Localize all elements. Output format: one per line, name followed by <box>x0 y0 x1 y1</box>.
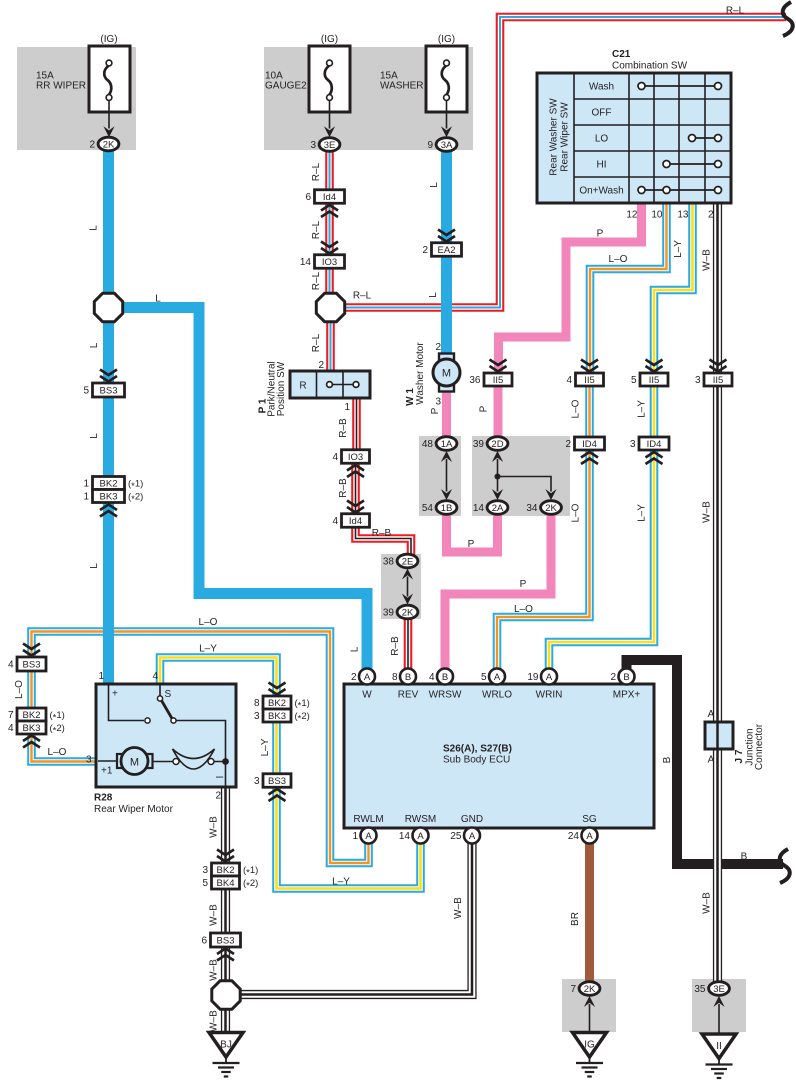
svg-text:BK2: BK2 <box>217 865 235 876</box>
svg-text:REV: REV <box>398 690 419 701</box>
svg-text:2K: 2K <box>584 984 596 995</box>
connector chevrons above 8 BK2 <box>269 683 286 695</box>
svg-text:L–Y: L–Y <box>332 877 350 888</box>
svg-text:2: 2 <box>435 342 441 353</box>
fuse block gray box left <box>17 47 136 150</box>
svg-text:GAUGE2: GAUGE2 <box>265 80 307 91</box>
svg-text:1: 1 <box>83 479 89 490</box>
off-page squiggle R-L <box>783 2 793 36</box>
rear wiper motor R28 <box>86 671 236 815</box>
svg-text:48: 48 <box>422 439 434 450</box>
connector oval 54 1B <box>422 501 457 515</box>
svg-text:2A: 2A <box>492 503 504 514</box>
arrow into 2K <box>402 594 413 605</box>
wire L-Y ECU RWSM loop to rear wiper motor pin 4 <box>160 644 421 889</box>
svg-text:WRLO: WRLO <box>482 690 512 701</box>
ECU pin 2 W <box>351 669 375 701</box>
svg-text:W–B: W–B <box>453 897 464 919</box>
svg-text:SG: SG <box>582 814 597 825</box>
svg-text:GND: GND <box>461 814 483 825</box>
svg-text:Wash: Wash <box>589 82 614 93</box>
svg-text:Rear Wiper SW: Rear Wiper SW <box>560 102 571 172</box>
svg-text:BK4: BK4 <box>217 878 235 889</box>
sub body ECU S26(A), S27(B) <box>344 684 654 828</box>
svg-text:A: A <box>546 672 553 683</box>
wire W-B octagon to ground BJ <box>209 1010 226 1033</box>
svg-text:B: B <box>442 672 448 683</box>
svg-text:19: 19 <box>527 672 539 683</box>
svg-text:(*1): (*1) <box>243 865 258 878</box>
svg-text:L–Y: L–Y <box>673 240 684 258</box>
svg-text:L: L <box>155 294 161 305</box>
svg-text:B: B <box>623 672 629 683</box>
connector chevrons above 5 BS3 <box>100 370 117 382</box>
wire P washer motor pin 3 to connector 1A <box>430 391 447 438</box>
svg-text:W–B: W–B <box>702 249 713 271</box>
connector 5 II5 <box>631 373 668 386</box>
connector gray box II ground <box>692 979 746 1032</box>
svg-text:BK2: BK2 <box>23 710 41 721</box>
connector gray box IG ground <box>562 979 616 1032</box>
connector 14 IO3 <box>300 255 345 269</box>
svg-text:R: R <box>299 381 306 392</box>
svg-text:L: L <box>429 182 440 188</box>
svg-text:L: L <box>89 225 100 231</box>
svg-text:M: M <box>130 757 139 769</box>
svg-text:W–B: W–B <box>209 1010 220 1032</box>
connector oval 3E (fuse GAUGE2) <box>310 138 339 152</box>
svg-text:(*1): (*1) <box>128 479 143 492</box>
svg-text:II5: II5 <box>713 375 724 386</box>
connector gray box 1A/1B <box>419 436 461 516</box>
wire R-L fuse GAUGE2 to octagon junction <box>311 152 330 293</box>
svg-text:ID4: ID4 <box>647 439 662 450</box>
connector oval 3A (fuse WASHER) <box>427 138 456 152</box>
wire L-Y connector ID4 to ECU WRIN <box>549 450 654 670</box>
svg-text:C21: C21 <box>612 49 631 60</box>
connector gray box 2E/2K <box>381 554 421 619</box>
connector oval 34 2K <box>526 501 561 515</box>
svg-text:39: 39 <box>473 439 485 450</box>
svg-text:4: 4 <box>8 660 14 671</box>
svg-text:L–Y: L–Y <box>637 504 648 522</box>
connector 4 IO3 <box>332 450 369 464</box>
svg-text:2: 2 <box>565 439 571 450</box>
connector 3 BK2 (*1) (W-B) <box>202 863 258 878</box>
svg-text:BJ: BJ <box>220 1040 232 1051</box>
svg-text:Rear Wiper Motor: Rear Wiper Motor <box>94 804 174 815</box>
svg-text:(*2): (*2) <box>243 878 258 891</box>
wire L octagon branch to ECU pin W <box>122 294 367 670</box>
svg-text:A: A <box>417 831 424 842</box>
park/neutral position switch P1 <box>258 360 371 417</box>
svg-text:R–B: R–B <box>372 528 392 539</box>
svg-text:L–O: L–O <box>48 747 67 758</box>
svg-text:35: 35 <box>694 984 706 995</box>
svg-text:W–B: W–B <box>702 892 713 914</box>
svg-text:4: 4 <box>152 671 158 682</box>
svg-text:EA2: EA2 <box>438 245 456 256</box>
svg-text:BR: BR <box>570 912 581 926</box>
svg-text:1: 1 <box>98 671 104 682</box>
ground II <box>702 1034 736 1078</box>
svg-text:A: A <box>586 831 593 842</box>
svg-text:BS3: BS3 <box>23 660 41 671</box>
svg-text:BK2: BK2 <box>268 698 286 709</box>
svg-text:2: 2 <box>318 360 324 371</box>
svg-text:25: 25 <box>450 831 462 842</box>
svg-text:24: 24 <box>568 831 580 842</box>
svg-text:12: 12 <box>626 210 638 221</box>
ground BJ <box>209 1033 243 1077</box>
svg-text:34: 34 <box>526 503 538 514</box>
svg-text:P: P <box>520 579 527 590</box>
connector gray box 2D/2A/2K <box>472 436 570 516</box>
connector oval 48 1A <box>422 437 457 451</box>
connector chevrons above II5 (3) <box>710 360 727 372</box>
svg-text:13: 13 <box>677 210 689 221</box>
svg-text:WRSW: WRSW <box>429 690 462 701</box>
svg-text:36: 36 <box>469 375 481 386</box>
svg-text:38: 38 <box>383 557 395 568</box>
svg-text:R–B: R–B <box>338 478 349 498</box>
svg-text:(*1): (*1) <box>295 698 310 711</box>
connector 7 BK2 (*1) <box>8 708 65 723</box>
connector chevrons below IO3 <box>347 465 364 477</box>
wire R-B P1 pin 1 to REV via IO3/Id4/2E/2K <box>338 398 411 669</box>
wire L fuse RR WIPER to octagon junction <box>89 151 109 293</box>
fuse 15A WASHER <box>380 34 467 137</box>
wire R-L octagon to P1 pin 2 <box>311 322 331 372</box>
connector 5 BS3 <box>83 383 124 397</box>
svg-text:5: 5 <box>83 386 89 397</box>
connector 3 ID4 <box>630 437 669 450</box>
connector chevrons below BK3 <box>100 505 117 517</box>
wire L octagon to rear wiper motor pin 1 <box>89 322 109 684</box>
svg-text:L–O: L–O <box>571 503 582 522</box>
junction connector J7 <box>705 709 765 770</box>
svg-text:3: 3 <box>254 711 260 722</box>
wire L fuse WASHER to washer motor pin 2 <box>428 152 447 355</box>
ECU pin 24 SG <box>568 814 598 844</box>
svg-text:3A: 3A <box>441 140 453 151</box>
svg-text:R–L: R–L <box>311 220 322 239</box>
svg-text:10: 10 <box>651 210 663 221</box>
svg-text:A: A <box>469 831 476 842</box>
svg-text:R–L: R–L <box>311 271 322 290</box>
svg-text:Id4: Id4 <box>323 192 336 203</box>
connector chevrons above II5 (4) <box>581 360 598 372</box>
svg-text:(*2): (*2) <box>295 711 310 724</box>
wire R-L octagon to off-page right <box>344 6 786 308</box>
svg-text:+: + <box>112 689 118 700</box>
svg-text:4: 4 <box>566 375 572 386</box>
svg-text:2: 2 <box>215 791 221 802</box>
svg-text:3E: 3E <box>713 984 725 995</box>
svg-text:L: L <box>89 433 100 439</box>
connector 3 BS3 (L-Y) <box>254 774 291 788</box>
svg-text:B: B <box>405 672 411 683</box>
wire P connector 2K to ECU WRSW <box>445 514 551 670</box>
ECU pin 25 GND <box>450 814 483 844</box>
connector 2 ID4 <box>565 437 604 450</box>
ECU pin 19 WRIN <box>527 669 562 701</box>
connector 6 Id4 <box>305 190 344 204</box>
connector 8 BK2 (*1) <box>254 696 310 711</box>
svg-text:1: 1 <box>344 402 350 413</box>
svg-text:Connector: Connector <box>754 723 765 770</box>
svg-text:RWSM: RWSM <box>405 814 436 825</box>
arrows and junction between 2D 2A 2K <box>492 451 503 462</box>
ECU pin 14 RWSM <box>399 814 436 844</box>
svg-text:Rear Washer SW: Rear Washer SW <box>549 98 560 176</box>
svg-text:RR WIPER: RR WIPER <box>36 80 86 91</box>
svg-text:(*1): (*1) <box>50 710 65 723</box>
svg-text:(*2): (*2) <box>128 492 143 505</box>
svg-text:39: 39 <box>383 608 395 619</box>
svg-text:A: A <box>708 709 715 720</box>
svg-text:3: 3 <box>435 397 441 408</box>
svg-text:A: A <box>364 672 371 683</box>
svg-text:L–Y: L–Y <box>637 400 648 418</box>
svg-text:2: 2 <box>351 672 357 683</box>
svg-text:8: 8 <box>392 672 398 683</box>
svg-text:(IG): (IG) <box>100 34 117 45</box>
connector 3 BK3 (*2) <box>254 709 310 724</box>
connector chevrons above II5 (36) <box>490 360 507 372</box>
connector oval 39 2K (REV) <box>383 605 418 619</box>
svg-text:W–B: W–B <box>209 816 220 838</box>
ECU pin 2 MPX+ <box>610 669 640 701</box>
svg-text:14: 14 <box>300 257 312 268</box>
ECU pin 5 WRLO <box>481 669 512 701</box>
ECU pin 8 REV <box>392 669 419 701</box>
svg-text:L–O: L–O <box>14 680 25 699</box>
svg-text:A: A <box>494 672 501 683</box>
fuse block gray box middle <box>264 47 473 150</box>
connector chevrons above Id4 <box>347 501 364 513</box>
ECU pin 4 WRSW <box>429 669 462 701</box>
svg-text:4: 4 <box>332 516 338 527</box>
svg-text:14: 14 <box>399 831 411 842</box>
connector 2 EA2 <box>422 243 461 257</box>
svg-text:W–B: W–B <box>209 904 220 926</box>
svg-text:2D: 2D <box>491 439 503 450</box>
connector 3 II5 <box>695 373 732 386</box>
connector chevrons above II5 (5) <box>646 360 663 372</box>
junction octagon node L <box>94 293 122 321</box>
svg-text:8: 8 <box>254 698 260 709</box>
svg-text:L: L <box>89 563 100 569</box>
svg-text:(*2): (*2) <box>50 723 65 736</box>
connector chevrons above EA2 <box>438 230 455 242</box>
svg-text:II: II <box>716 1041 722 1052</box>
svg-text:WASHER: WASHER <box>380 80 424 91</box>
svg-text:R–B: R–B <box>390 636 401 656</box>
ground IG <box>573 1033 607 1077</box>
combination switch C21 <box>537 49 731 221</box>
svg-text:14: 14 <box>473 503 485 514</box>
svg-text:A: A <box>708 755 715 766</box>
connector chevrons above 4 BS3 <box>23 644 40 656</box>
svg-text:2E: 2E <box>402 556 414 567</box>
svg-text:2: 2 <box>89 140 95 151</box>
connector chevrons below Id4 <box>321 205 338 217</box>
svg-text:W–B: W–B <box>209 959 220 981</box>
svg-text:B: B <box>662 756 673 763</box>
svg-text:MPX+: MPX+ <box>613 690 641 701</box>
svg-text:1: 1 <box>352 831 358 842</box>
svg-text:BK3: BK3 <box>23 723 41 734</box>
wire L-O ECU RWLM loop to rear wiper motor pin 3 <box>14 617 369 863</box>
connector 4 BK3 (*2) <box>8 721 65 736</box>
connector 6 BS3 (W-B) <box>201 933 240 947</box>
wire L-Y combination SW pin 13 to connector ID4 <box>637 205 693 438</box>
svg-text:–: – <box>216 769 224 784</box>
svg-text:IO3: IO3 <box>348 452 363 463</box>
svg-text:1B: 1B <box>441 503 453 514</box>
svg-text:5: 5 <box>202 878 208 889</box>
svg-text:HI: HI <box>597 160 607 171</box>
svg-text:7: 7 <box>570 984 576 995</box>
svg-text:L–O: L–O <box>199 617 218 628</box>
svg-text:IG: IG <box>584 1040 595 1051</box>
svg-text:3: 3 <box>695 375 701 386</box>
svg-text:2K: 2K <box>103 139 115 150</box>
junction octagon node W-B <box>212 981 240 1009</box>
connector chevrons below BK3 (L-O) <box>23 736 40 748</box>
fuse 10A GAUGE2 <box>265 34 350 137</box>
connector chevrons below ID4 (3) <box>646 452 663 464</box>
junction octagon node R-L <box>316 293 344 321</box>
svg-text:RWLM: RWLM <box>353 814 383 825</box>
svg-text:4: 4 <box>8 723 14 734</box>
connector 4 Id4 <box>332 514 369 528</box>
svg-text:L: L <box>89 342 100 348</box>
svg-text:6: 6 <box>201 936 207 947</box>
svg-text:WRIN: WRIN <box>536 690 563 701</box>
svg-text:R28: R28 <box>94 793 113 804</box>
wire P combination SW pin 12 to connector 2D <box>479 205 642 438</box>
svg-text:M: M <box>442 368 451 380</box>
svg-text:(IG): (IG) <box>438 34 455 45</box>
svg-text:3: 3 <box>310 140 316 151</box>
arrow into 2E <box>402 569 413 580</box>
svg-text:2K: 2K <box>402 607 414 618</box>
wire W-B combination SW pin 2 to ground II (through J7) <box>702 205 718 982</box>
svg-text:IO3: IO3 <box>322 257 337 268</box>
svg-text:3: 3 <box>202 865 208 876</box>
connector oval 35 3E (II) <box>694 982 729 996</box>
wire P connector 1B to connector 2A <box>447 514 498 553</box>
connector oval 38 2E <box>383 554 418 568</box>
svg-text:7: 7 <box>8 710 14 721</box>
svg-text:B: B <box>741 852 748 863</box>
fuse 15A RR WIPER <box>36 34 130 137</box>
svg-text:BS3: BS3 <box>217 936 235 947</box>
svg-text:BS3: BS3 <box>100 386 118 397</box>
svg-text:4: 4 <box>332 452 338 463</box>
svg-text:BK3: BK3 <box>268 711 286 722</box>
connector 5 BK4 (*2) (W-B) <box>202 876 258 891</box>
svg-text:2: 2 <box>610 672 616 683</box>
svg-text:R–L: R–L <box>353 291 372 302</box>
svg-text:Position SW: Position SW <box>276 361 287 416</box>
connector oval 39 2D <box>473 437 508 451</box>
svg-text:3E: 3E <box>324 140 336 151</box>
connector chevrons below ID4 (2) <box>581 452 598 464</box>
svg-text:R–B: R–B <box>338 418 349 438</box>
svg-text:On+Wash: On+Wash <box>579 186 623 197</box>
svg-text:BK3: BK3 <box>100 492 118 503</box>
svg-text:BS3: BS3 <box>268 776 286 787</box>
svg-text:L: L <box>350 646 361 652</box>
wire L-O combination SW pin 10 to connector ID4 <box>571 205 667 438</box>
svg-text:R–L: R–L <box>726 6 745 17</box>
svg-text:3: 3 <box>86 755 92 766</box>
connector 1 BK2 (*1) <box>83 477 143 492</box>
svg-text:1A: 1A <box>441 439 453 450</box>
svg-text:W: W <box>362 690 372 701</box>
washer motor W1 <box>405 342 460 408</box>
svg-text:Sub Body ECU: Sub Body ECU <box>443 755 510 766</box>
svg-text:L–O: L–O <box>571 399 582 418</box>
off-page squiggle B <box>780 849 790 883</box>
svg-text:LO: LO <box>595 134 609 145</box>
svg-text:4: 4 <box>429 672 435 683</box>
wire B ECU MPX+ to off-page right <box>627 660 784 864</box>
svg-text:5: 5 <box>481 672 487 683</box>
svg-text:(IG): (IG) <box>321 34 338 45</box>
svg-text:S26(A), S27(B): S26(A), S27(B) <box>443 744 512 755</box>
wire L-O connector ID4 to ECU WRLO <box>497 450 590 670</box>
svg-text:P: P <box>430 407 441 414</box>
connector chevrons below BS3 (L-Y) <box>269 789 286 801</box>
svg-text:9: 9 <box>427 140 433 151</box>
svg-text:OFF: OFF <box>592 108 612 119</box>
svg-text:Combination SW: Combination SW <box>612 61 688 72</box>
svg-text:P: P <box>468 539 475 550</box>
svg-text:L–O: L–O <box>514 604 533 615</box>
svg-text:BK2: BK2 <box>100 479 118 490</box>
arrow into 2K (IG) <box>584 996 595 1007</box>
arrow into 3E (II) <box>713 996 724 1007</box>
connector 4 II5 <box>566 373 603 386</box>
svg-text:L–Y: L–Y <box>260 738 271 756</box>
connector chevrons below BS3 (W-B) <box>217 949 234 961</box>
svg-text:ID4: ID4 <box>582 439 597 450</box>
connector oval 7 2K (IG) <box>570 982 599 996</box>
arrows between 1A and 1B <box>441 451 452 462</box>
svg-text:1: 1 <box>83 492 89 503</box>
svg-text:L: L <box>428 292 439 298</box>
svg-text:R–L: R–L <box>311 162 322 181</box>
svg-text:L–Y: L–Y <box>199 644 217 655</box>
svg-text:II5: II5 <box>584 375 595 386</box>
svg-text:II5: II5 <box>649 375 660 386</box>
svg-text:2K: 2K <box>545 503 557 514</box>
svg-text:P: P <box>479 405 490 412</box>
svg-text:A: A <box>365 831 372 842</box>
svg-text:II5: II5 <box>493 375 504 386</box>
connector oval 2K (fuse RR WIPER) <box>89 137 118 151</box>
svg-text:Washer Motor: Washer Motor <box>415 342 426 405</box>
connector chevrons above IO3 <box>321 242 338 254</box>
wire W-B octagon to ECU GND <box>240 844 472 995</box>
svg-text:S: S <box>165 689 172 700</box>
svg-text:Id4: Id4 <box>349 516 362 527</box>
svg-text:+1: +1 <box>101 766 113 777</box>
